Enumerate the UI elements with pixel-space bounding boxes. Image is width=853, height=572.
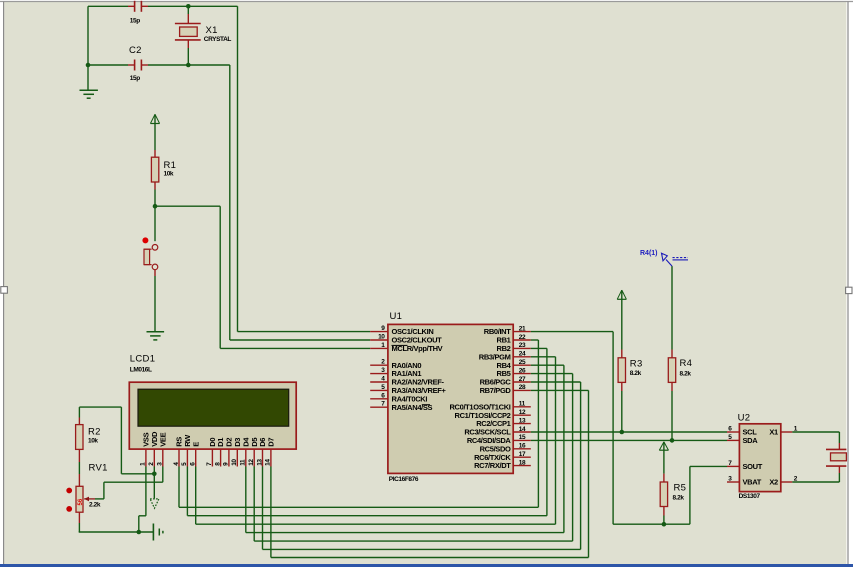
svg-text:2.2k: 2.2k	[89, 502, 101, 509]
svg-text:R3: R3	[630, 359, 643, 370]
svg-text:RA5/AN4/SS: RA5/AN4/SS	[392, 403, 433, 412]
svg-text:U1: U1	[390, 311, 403, 322]
svg-text:18: 18	[519, 459, 526, 466]
svg-text:17: 17	[519, 451, 526, 458]
svg-text:R4: R4	[680, 358, 693, 369]
svg-text:C2: C2	[129, 45, 142, 56]
svg-text:SOUT: SOUT	[743, 462, 763, 471]
svg-text:RB7/PGD: RB7/PGD	[480, 386, 512, 395]
svg-text:12: 12	[519, 409, 526, 416]
svg-text:11: 11	[519, 401, 526, 408]
svg-text:RV1: RV1	[89, 463, 108, 474]
svg-text:8.2k: 8.2k	[680, 370, 692, 377]
svg-text:24: 24	[519, 351, 526, 358]
svg-text:PIC16F876: PIC16F876	[389, 476, 419, 483]
svg-text:56: 56	[78, 498, 84, 505]
svg-text:11: 11	[240, 459, 247, 466]
svg-text:CRYSTAL: CRYSTAL	[204, 36, 232, 43]
svg-text:RC7/RX/DT: RC7/RX/DT	[474, 461, 511, 470]
svg-text:E: E	[191, 442, 200, 447]
svg-text:14: 14	[519, 426, 526, 433]
svg-text:27: 27	[519, 376, 526, 383]
svg-text:LCD1: LCD1	[130, 354, 156, 365]
svg-text:8.2k: 8.2k	[630, 370, 642, 377]
svg-text:23: 23	[519, 342, 526, 349]
svg-text:13: 13	[519, 417, 526, 424]
svg-text:22: 22	[519, 334, 526, 341]
svg-text:MCLR/Vpp/THV: MCLR/Vpp/THV	[392, 344, 443, 353]
svg-text:21: 21	[519, 325, 526, 332]
svg-text:25: 25	[519, 359, 526, 366]
svg-text:15p: 15p	[130, 75, 140, 82]
svg-text:10: 10	[378, 334, 385, 341]
svg-text:DS1307: DS1307	[739, 493, 761, 500]
svg-text:X1: X1	[769, 428, 778, 437]
svg-text:R4(1): R4(1)	[640, 250, 658, 257]
svg-text:U2: U2	[738, 412, 751, 423]
svg-text:R2: R2	[88, 427, 101, 438]
svg-text:VBAT: VBAT	[743, 478, 762, 487]
svg-text:16: 16	[519, 443, 526, 450]
svg-text:D7: D7	[267, 438, 276, 447]
svg-text:10k: 10k	[88, 438, 98, 445]
svg-text:10: 10	[231, 459, 238, 466]
svg-text:X1: X1	[206, 25, 218, 36]
svg-text:LM016L: LM016L	[130, 367, 152, 374]
svg-text:26: 26	[519, 367, 526, 374]
svg-text:15: 15	[519, 434, 526, 441]
svg-text:R5: R5	[674, 483, 687, 494]
svg-text:12: 12	[248, 459, 255, 466]
svg-text:28: 28	[519, 384, 526, 391]
svg-text:14: 14	[265, 459, 272, 466]
svg-text:8.2k: 8.2k	[673, 495, 685, 502]
svg-text:SDA: SDA	[743, 436, 759, 445]
svg-text:VEE: VEE	[158, 432, 167, 446]
svg-text:13: 13	[256, 459, 263, 466]
svg-text:15p: 15p	[130, 17, 140, 24]
svg-text:X2: X2	[769, 478, 778, 487]
svg-text:10k: 10k	[164, 170, 174, 177]
